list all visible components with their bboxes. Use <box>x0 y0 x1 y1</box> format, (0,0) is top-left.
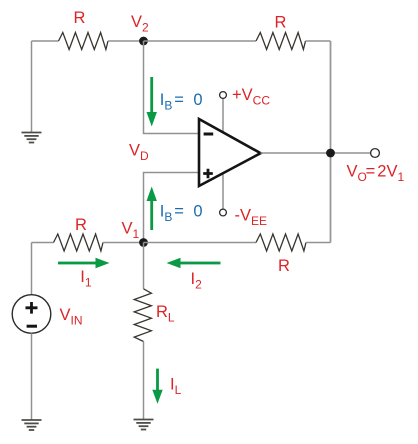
svg-text:+VCC: +VCC <box>232 86 270 108</box>
svg-text:RL: RL <box>156 303 175 325</box>
ground (top-left) <box>22 133 42 143</box>
svg-text:VIN: VIN <box>60 306 83 328</box>
current arrow IL (pointing down) <box>152 369 162 404</box>
svg-text:VO=2V1: VO=2V1 <box>347 163 405 185</box>
wire left vertical from top rail down to ground <box>31 41 33 133</box>
svg-text:R: R <box>74 9 86 27</box>
node V2 junction dot <box>139 37 148 46</box>
node V1 junction dot <box>139 238 148 247</box>
wire from bottom-left resistor to node V1 <box>103 242 144 244</box>
op-amp non-inverting input plus symbol <box>203 169 213 178</box>
wire from node V1 to resistor R (bottom-right) <box>144 242 257 244</box>
ground (bottom-center) <box>134 420 154 430</box>
voltage source VIN circle <box>12 295 51 334</box>
current arrow IB=0 (bottom, pointing up) <box>147 187 157 231</box>
svg-text:V1: V1 <box>122 220 140 242</box>
terminal +VCC open circle <box>220 92 227 99</box>
wire from node V1 down to load resistor RL <box>143 243 145 289</box>
wire -VEE supply vertical from op-amp <box>222 175 224 210</box>
resistor R bottom-right zigzag <box>256 234 306 251</box>
wire from top-right resistor to feedback corner <box>306 40 331 42</box>
VIN plus symbol <box>26 302 38 314</box>
svg-text:IB=0: IB=0 <box>160 203 203 225</box>
current arrow IB=0 (top, pointing down) <box>147 77 157 127</box>
svg-text:V2: V2 <box>131 13 149 35</box>
node output junction dot <box>326 149 335 158</box>
svg-text:R: R <box>275 14 287 32</box>
terminal VO open circle <box>371 149 380 158</box>
svg-text:R: R <box>75 216 87 234</box>
wire from RL to ground <box>143 342 145 420</box>
current arrow I1 (pointing right) <box>58 258 110 268</box>
op-amp inverting input minus symbol <box>204 133 214 136</box>
wire bottom-left from VIN branch to resistor R (bottom-left) <box>32 242 54 244</box>
op-amp U1 triangle <box>199 119 261 186</box>
wire from bottom-right resistor to feedback corner <box>306 242 331 244</box>
resistor RL vertical zigzag <box>134 289 151 342</box>
wire non-inverting input branch: horizontal from op-amp then vertical down to node V1 <box>144 173 200 243</box>
wire top-left horizontal from ground branch to resistor R (top-left) <box>32 40 59 42</box>
svg-text:I1: I1 <box>80 268 92 290</box>
svg-text:VD: VD <box>129 142 149 164</box>
resistor R top-right zigzag <box>256 33 306 50</box>
wire feedback vertical from top corner through output node to bottom corner <box>330 41 332 243</box>
wire from top-left resistor to node V2 <box>108 40 144 42</box>
svg-text:IL: IL <box>170 376 182 398</box>
svg-text:-VEE: -VEE <box>235 207 268 229</box>
wire +VCC supply vertical into op-amp <box>222 99 224 132</box>
ground (bottom-left) <box>22 420 42 430</box>
wire output from op-amp to output terminal <box>261 152 371 154</box>
svg-text:IB=0: IB=0 <box>160 91 203 113</box>
current arrow I2 (pointing left) <box>167 258 221 268</box>
wire vertical from bottom rail to VIN source top <box>31 243 33 295</box>
wire from node V2 to resistor R (top-right) <box>144 40 257 42</box>
terminal -VEE open circle <box>220 209 227 216</box>
wire inverting input branch: vertical from V2 then horizontal into op-amp <box>144 41 200 134</box>
resistor R bottom-left zigzag <box>54 234 104 251</box>
VIN minus symbol <box>27 325 37 328</box>
wire from VIN source bottom to ground <box>31 333 33 420</box>
svg-text:I2: I2 <box>191 270 203 292</box>
svg-text:R: R <box>278 257 290 275</box>
resistor R top-left zigzag <box>59 33 109 50</box>
